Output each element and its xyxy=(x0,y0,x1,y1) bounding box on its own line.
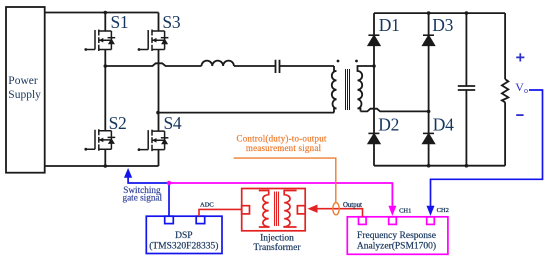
transistor S1 xyxy=(86,30,115,52)
svg-text:Control(duty)-to-output: Control(duty)-to-output xyxy=(237,134,327,144)
transformer T1 primary xyxy=(332,66,337,113)
node rect top Co xyxy=(465,11,469,15)
node S1S2 top xyxy=(104,11,108,15)
injection transformer box xyxy=(242,189,306,231)
resistor load zigzag xyxy=(502,79,508,102)
svg-text:D1: D1 xyxy=(379,15,400,35)
diode D2 xyxy=(368,133,379,143)
wire secondary bottom with hop over D1D2 leg xyxy=(361,109,429,112)
node S1S2 midpoint xyxy=(104,64,108,68)
transistor S3 xyxy=(139,30,168,52)
wire red output to injection xyxy=(316,209,363,217)
wire load leg xyxy=(504,13,506,166)
wire orange annotation bracket xyxy=(234,158,339,215)
wire D3D4 leg xyxy=(428,13,430,166)
arrow CH1 down xyxy=(388,206,396,216)
wire red ADC xyxy=(199,209,242,216)
svg-text:Supply: Supply xyxy=(8,89,41,101)
wire capacitor to transformer xyxy=(280,65,335,67)
svg-text:DSP: DSP xyxy=(175,231,192,241)
svg-text:D2: D2 xyxy=(378,115,399,135)
node secondary-D1D2 xyxy=(372,64,376,68)
capacitor C blocking xyxy=(276,60,280,73)
svg-text:(TMS320F28335): (TMS320F28335) xyxy=(149,240,218,251)
orange ellipse probe xyxy=(333,203,339,215)
injection transformer core xyxy=(275,192,279,227)
arrow gate signal up xyxy=(124,168,132,178)
svg-text:Output: Output xyxy=(343,202,362,209)
node magenta junction xyxy=(167,181,171,185)
wire S1S2 leg xyxy=(104,13,106,167)
label minus xyxy=(516,114,523,116)
svg-text:Injection: Injection xyxy=(260,233,294,243)
transformer T1 secondary xyxy=(358,66,375,111)
svg-text:CH2: CH2 xyxy=(437,207,449,214)
svg-text:S2: S2 xyxy=(109,113,127,133)
svg-text:S4: S4 xyxy=(164,113,182,133)
capacitor Co plates xyxy=(458,86,475,90)
wire top rail xyxy=(45,12,159,14)
FRA box xyxy=(347,217,448,255)
svg-text:gate signal: gate signal xyxy=(123,193,163,203)
svg-text:Analyzer(PSM1700): Analyzer(PSM1700) xyxy=(357,241,436,252)
svg-text:S3: S3 xyxy=(162,12,180,32)
label control to output measurement xyxy=(237,134,327,154)
svg-text:ADC: ADC xyxy=(200,201,214,208)
svg-text:Frequency Response: Frequency Response xyxy=(357,231,436,241)
wire capacitor leg xyxy=(465,13,467,166)
wire magenta to CH1 xyxy=(169,183,392,207)
wire bottom output to primary xyxy=(158,112,334,114)
wire blue CH2 xyxy=(431,90,543,207)
wire rectifier bottom rail xyxy=(374,165,505,167)
transformer T1 core xyxy=(346,69,350,110)
svg-text:D3: D3 xyxy=(432,15,453,35)
transformer dot primary xyxy=(337,60,340,63)
arrow into injection port xyxy=(308,205,318,213)
power supply box xyxy=(6,7,45,173)
svg-text:Transformer: Transformer xyxy=(253,242,301,253)
diode D1 xyxy=(368,35,379,45)
arrow CH2 down xyxy=(427,206,435,216)
node rect bottom Co xyxy=(465,164,469,168)
node S1S2 bottom xyxy=(104,164,108,168)
transistor S4 xyxy=(139,130,168,152)
injection transformer winding right xyxy=(284,191,296,228)
wire rectifier top rail xyxy=(374,12,505,14)
label plus xyxy=(516,53,524,61)
wire top output with hop over S3S4 leg xyxy=(105,63,201,66)
node rect top D3 xyxy=(427,11,431,15)
svg-text:CH1: CH1 xyxy=(399,208,411,215)
inductor L xyxy=(202,61,234,66)
svg-text:D4: D4 xyxy=(433,115,454,135)
diode D4 xyxy=(423,133,434,143)
wire blue gate signal xyxy=(128,175,169,217)
svg-text:measurement signal: measurement signal xyxy=(246,143,322,153)
wire bottom rail left xyxy=(45,165,159,167)
transistor S2 xyxy=(86,129,115,151)
node S3S4 midpoint xyxy=(156,111,160,115)
injection transformer winding left xyxy=(259,191,269,228)
node rect bottom D4 xyxy=(427,164,431,168)
node secondary-D3D4 xyxy=(427,110,431,114)
svg-text:S1: S1 xyxy=(111,12,129,32)
wire D1D2 leg xyxy=(373,13,375,166)
diode D3 xyxy=(423,35,434,45)
transformer dot secondary xyxy=(355,60,358,63)
wire inductor to capacitor xyxy=(234,65,276,67)
svg-text:Power: Power xyxy=(8,75,38,87)
wire S3S4 leg xyxy=(158,13,160,167)
DSP box xyxy=(146,216,222,253)
